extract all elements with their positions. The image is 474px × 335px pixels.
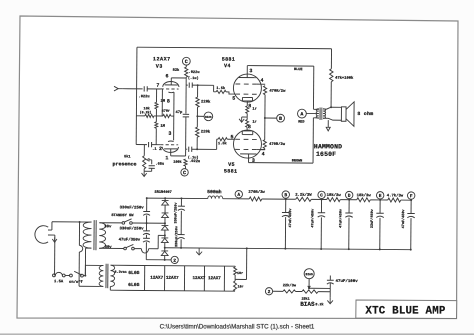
svg-text:E: E (379, 193, 382, 199)
capacitor 47uF/450v node D (348, 200, 350, 213)
resistor 22k/3w bias (283, 290, 296, 293)
wire stack1 to bias line (145, 242, 147, 259)
diode D3 (164, 218, 166, 226)
capacitor .022u (.1u) lower coupling (186, 148, 188, 150)
ground cathode junction (242, 116, 247, 118)
V5 plate lead (248, 154, 250, 163)
wire ground rail (165, 248, 411, 250)
diode D1 (164, 198, 166, 200)
wire BROWN plate V5 to OT (249, 162, 313, 165)
transformer T3 heater primary coil (99, 265, 103, 286)
title block box (356, 300, 457, 319)
V4 plate lead (246, 66, 248, 78)
wire B+ top rail (147, 197, 208, 199)
V3 bottom grid dashed (160, 144, 178, 146)
transistor V5 5881 envelope (233, 130, 261, 158)
V3 top plate bar (165, 84, 178, 86)
svg-text:47k+100k: 47k+100k (335, 76, 354, 81)
V5 screen grid dashed (235, 148, 256, 150)
svg-text:5: 5 (232, 96, 235, 102)
svg-text:3: 3 (168, 131, 171, 137)
resistor 10k (8.2k) feedback (145, 114, 154, 117)
resistor 470R/2w V5 screen (263, 140, 266, 149)
wire screen rail (264, 95, 266, 140)
svg-text:220k: 220k (201, 100, 211, 105)
wire 22k to pot (296, 290, 302, 292)
svg-text:22k/3w: 22k/3w (283, 283, 297, 288)
svg-text:8 ohm: 8 ohm (357, 111, 373, 117)
V4 plate bar (239, 77, 256, 79)
svg-text:330uF/250v: 330uF/250v (174, 225, 179, 247)
wire jog to V4 grid (213, 85, 215, 91)
resistor 2.2k/3W (296, 197, 312, 201)
node E circle rail (376, 192, 383, 199)
diode D4 (164, 230, 166, 238)
svg-text:30v: 30v (104, 225, 112, 229)
svg-text:18k/3w: 18k/3w (327, 193, 342, 198)
wire tail mid (154, 115, 163, 117)
transformer T1 HV secondary coil (99, 223, 106, 249)
svg-text:presence: presence (112, 161, 136, 167)
svg-text:8: 8 (167, 98, 170, 104)
capacitor 330uF/250v stack1 mid (145, 215, 147, 230)
resistor 470R/2w V4 screen (263, 86, 266, 95)
svg-text:330uF/250v: 330uF/250v (173, 202, 178, 224)
svg-text:.68u: .68u (155, 163, 164, 167)
wire pot to ground (318, 291, 330, 293)
capacitor .022u input coupling (143, 86, 145, 91)
capacitor 47uF/450v node B (285, 199, 287, 212)
svg-text:V5: V5 (228, 162, 235, 168)
ground OT secondary (326, 127, 330, 131)
capacitor 47uF/350v stack1 bottom (145, 235, 147, 238)
svg-text:1.5A: 1.5A (54, 280, 64, 284)
V5 cathode box (242, 131, 253, 135)
wire heater primary return tall (78, 222, 80, 245)
svg-text:STANDBY SW: STANDBY SW (111, 214, 134, 218)
svg-text:BIAS: BIAS (205, 116, 212, 119)
plug prong top (48, 229, 52, 231)
svg-text:5k1: 5k1 (124, 154, 131, 159)
capacitor .68u presence (149, 165, 155, 167)
svg-text:F: F (410, 193, 413, 199)
svg-text:BROWN: BROWN (292, 159, 303, 163)
svg-text:A: A (300, 111, 303, 117)
resistor 18k/3w first (327, 198, 341, 202)
svg-text:8.2k: 8.2k (315, 302, 323, 307)
svg-text:7: 7 (156, 83, 159, 89)
V3 top cathode arc (168, 91, 174, 94)
svg-text:1.5k: 1.5k (218, 141, 228, 146)
svg-text:(8.2k): (8.2k) (140, 110, 152, 114)
svg-text:on/off: on/off (69, 280, 83, 285)
svg-text:A: A (237, 192, 240, 198)
transformer T2 OT primary coil (316, 109, 319, 119)
svg-text:RED: RED (298, 120, 304, 124)
wire heater tie 3 (183, 266, 185, 291)
svg-text:.022u: .022u (189, 160, 200, 164)
capacitor 330uF/250v stack2 top (180, 198, 182, 206)
switch on/off (65, 274, 69, 276)
svg-text:2: 2 (268, 289, 271, 295)
transformer T3 core (105, 264, 107, 288)
svg-text:22uF/450v: 22uF/450v (370, 208, 375, 228)
node F circle rail (407, 192, 414, 199)
svg-text:(.1u): (.1u) (188, 76, 199, 81)
wire plate pin6 to 82k (170, 78, 172, 85)
svg-text:6L6G: 6L6G (128, 270, 139, 276)
wire plug top to PT primary (51, 222, 53, 230)
wire heater tie 1 (144, 265, 146, 290)
node D circle rail (345, 191, 352, 198)
fuse 1.5A (53, 274, 56, 277)
svg-text:470R/2w: 470R/2w (269, 89, 286, 94)
wire PT primary bottom (86, 247, 92, 249)
transformer T2 core (319, 107, 322, 119)
triode V3 bottom envelope (162, 147, 178, 153)
wire 47k to speaker (330, 82, 332, 107)
wire OT secondary top to speaker (323, 107, 341, 109)
svg-text:SR1N4007: SR1N4007 (155, 191, 172, 195)
svg-text:30v: 30v (105, 246, 113, 250)
wire 1.5k to pin5 V5 (227, 138, 235, 140)
wire grid2 from presence cap (136, 144, 147, 146)
wire heater rail top (111, 264, 236, 267)
svg-text:8: 8 (248, 124, 251, 130)
inductor 500mh choke (208, 196, 223, 199)
svg-text:1r: 1r (252, 108, 256, 112)
node A circle rail (235, 190, 242, 197)
wire standby2 hop and to diodes (134, 248, 141, 250)
svg-text:12AX7: 12AX7 (150, 276, 163, 281)
wire rail C-D (340, 199, 356, 201)
ground bias (327, 300, 333, 303)
transistor V4 5881 envelope (233, 74, 261, 102)
svg-text:4: 4 (262, 151, 265, 157)
resistor 1M lower grid-tail (155, 116, 157, 122)
wire screen pin4 V5 (257, 149, 265, 151)
wire OT secondary bottom return (323, 118, 341, 120)
wire cathode pin3 rise (173, 92, 175, 140)
capacitor .1 lower grid (148, 142, 150, 147)
resistor 100k lower plate (184, 159, 187, 166)
svg-text:B: B (279, 116, 282, 122)
svg-text:47uF/450v: 47uF/450v (288, 208, 293, 228)
node BIAS circle (196, 115, 198, 117)
potentiometer 5k1 presence (143, 145, 145, 156)
svg-text:2: 2 (173, 258, 176, 264)
svg-text:330uF/250v: 330uF/250v (119, 226, 144, 231)
svg-text:10r: 10r (237, 271, 243, 276)
wire tail left segment (136, 115, 144, 117)
wire rail E-F (401, 199, 411, 201)
svg-text:5881: 5881 (222, 57, 235, 63)
resistor 82k plate V3a (185, 67, 188, 77)
svg-text:1M: 1M (161, 100, 166, 104)
wire jog to V5 grid (216, 139, 218, 149)
svg-text:BLUE: BLUE (294, 68, 302, 72)
triode V3 top envelope (163, 81, 179, 87)
svg-text:BIAS: BIAS (306, 273, 313, 276)
diode D2 (164, 205, 166, 213)
wire standby1 to diodes (132, 222, 165, 224)
svg-text:V3: V3 (156, 64, 163, 70)
speaker 8 ohm (341, 107, 346, 121)
svg-text:B: B (284, 192, 287, 198)
capacitor 47p between plates (185, 85, 187, 113)
ground presence (142, 173, 147, 176)
V3 bottom plate bar (164, 148, 177, 150)
svg-text:4.7k/3w: 4.7k/3w (387, 193, 404, 198)
svg-text:6: 6 (165, 73, 168, 79)
svg-text:100k: 100k (173, 160, 181, 165)
resistor 10r humdinger bottom (234, 281, 237, 291)
svg-text:XTC BLUE AMP: XTC BLUE AMP (365, 305, 445, 317)
V4 screen grid dashed (235, 83, 256, 85)
wire main rail A-F (223, 198, 249, 200)
resistor 1M upper grid-tail (156, 89, 158, 102)
svg-text:5: 5 (231, 134, 234, 140)
svg-text:220k: 220k (201, 130, 211, 135)
node 2 circle bias input (265, 288, 272, 295)
wire BLUE plate V4 to OT (247, 65, 313, 68)
transformer T3 heater secondary coil (110, 265, 114, 286)
svg-text:C: C (320, 193, 323, 199)
AC plug (35, 226, 48, 244)
resistor 18k/3w second (357, 198, 371, 202)
scan edge artifact bottom (0, 333, 474, 335)
svg-text:2: 2 (159, 146, 162, 152)
svg-text:10r: 10r (237, 285, 243, 290)
resistor 1.5k V5 grid (218, 138, 227, 141)
svg-text:3: 3 (249, 68, 252, 74)
capacitor .022u (.1u) upper coupling (186, 84, 188, 86)
svg-text:V4: V4 (224, 63, 231, 69)
svg-text:82k: 82k (173, 68, 180, 73)
presence wiper arrow (149, 159, 152, 161)
wire heater tie 2 (164, 266, 166, 291)
svg-text:47uF/350v: 47uF/350v (119, 237, 141, 242)
svg-text:470R/2w: 470R/2w (269, 142, 286, 147)
V3 bottom cathode arc (168, 140, 174, 143)
resistor 4.7k/3w (388, 198, 401, 202)
svg-text:500mh: 500mh (207, 189, 222, 195)
svg-text:270R/3w: 270R/3w (248, 190, 265, 195)
svg-text:47uF/450v: 47uF/450v (310, 208, 315, 228)
node B circle tubes (265, 117, 277, 119)
node C circle bottom (181, 169, 188, 176)
svg-text:.022u: .022u (138, 95, 149, 99)
svg-text:D: D (348, 193, 351, 199)
transformer T2 OT secondary coil (323, 109, 326, 119)
wire rail D-E (370, 199, 387, 201)
resistor 47k+100k feedback (330, 69, 334, 82)
switch standby pole 1 (99, 222, 122, 224)
svg-text:BIAS: BIAS (300, 301, 315, 308)
transformer T1 core (93, 220, 95, 250)
resistor 1r V5 cathode (246, 117, 248, 119)
svg-text:470r: 470r (162, 109, 170, 114)
capacitor 47uF/100v bias (327, 279, 334, 281)
input terminal arrow (114, 86, 118, 91)
svg-text:1.5k: 1.5k (216, 86, 226, 91)
resistor 1r V4 cathode (246, 106, 249, 114)
svg-text:2.2k/3W: 2.2k/3W (295, 193, 312, 198)
wire cathode pin8 drop (161, 89, 163, 116)
wire heater rail bottom (110, 289, 235, 292)
V4 cathode lead (246, 101, 248, 106)
switch standby pole 2 (99, 247, 123, 249)
svg-text:12AX7: 12AX7 (192, 276, 205, 281)
resistor 470r tail (163, 114, 171, 117)
plug prong bottom (48, 234, 55, 236)
resistor 220k lower grid leak (196, 116, 198, 127)
node C circle top (182, 57, 190, 65)
svg-text:C:\Users\timn\Downloads\Marsha: C:\Users\timn\Downloads\Marshall STC (1)… (160, 324, 315, 331)
wire heater tie 5 (223, 266, 225, 291)
V3 top grid dashed (161, 88, 179, 90)
wire 1.5k to pin5 V4 (226, 92, 235, 94)
wire plate pin1 out (170, 149, 172, 156)
svg-text:C: C (185, 59, 188, 65)
V4 cathode box (242, 97, 252, 100)
svg-text:330uF/250v: 330uF/250v (120, 205, 145, 210)
resistor 220k upper grid leak (197, 84, 199, 86)
svg-text:6L6G: 6L6G (128, 282, 139, 288)
wire rail B-C (311, 198, 326, 200)
node BIAS circle bottom (304, 269, 314, 279)
ground mains earth arrow (52, 239, 57, 242)
wire NFB drop right (330, 49, 332, 69)
wire bias to cap (308, 287, 310, 289)
svg-text:HAMMOND: HAMMOND (314, 143, 342, 150)
wire humdinger junction to ground rail (235, 278, 246, 280)
capacitor 330uF/250v stack1 top (146, 198, 148, 211)
svg-text:12AX7: 12AX7 (153, 56, 171, 62)
svg-text:47p: 47p (175, 111, 183, 115)
wire switch to junction (83, 275, 85, 277)
node C circle rail (318, 191, 325, 198)
wire screen pin4 V4 (257, 83, 262, 85)
svg-text:18k/3w: 18k/3w (357, 193, 372, 198)
svg-text:1r: 1r (252, 121, 256, 125)
capacitor 22uF/450v node E (379, 200, 381, 213)
V4 control grid dashed (235, 93, 256, 95)
wire heater tie 4 (203, 266, 205, 291)
wire A to OT center tap (306, 112, 318, 114)
transformer T1 PT primary coil (83, 222, 92, 248)
capacitor 47uF/450v node C (320, 199, 322, 212)
wire NFB vertical line (135, 47, 138, 144)
ground rail arrow (196, 252, 202, 255)
capacitor 47uF/450v node F (410, 200, 412, 213)
svg-text:4: 4 (260, 78, 263, 84)
resistor 10r humdinger top (234, 267, 237, 275)
svg-text:.022u: .022u (188, 71, 199, 75)
wire 2 to 22k (273, 290, 283, 292)
svg-text:5881: 5881 (224, 168, 237, 174)
svg-text:12AX7: 12AX7 (166, 276, 179, 281)
svg-text:47uF/450v: 47uF/450v (401, 209, 406, 229)
wire plug bottom to fuse (54, 235, 56, 275)
node 2 circle bias tap (165, 259, 171, 261)
V5 plate bar (240, 153, 256, 155)
svg-text:12AX7: 12AX7 (208, 276, 221, 281)
resistor 270R/3w (249, 197, 262, 201)
svg-text:1M: 1M (160, 125, 165, 129)
capacitor 330uF/250v stack2 bottom (180, 211, 182, 235)
wire rail A-B (262, 198, 296, 200)
diode D5 bias (164, 243, 166, 251)
svg-text:47uF/450v: 47uF/450v (338, 208, 343, 228)
bias pot wiper arrow (308, 279, 310, 289)
svg-text:6.3vac: 6.3vac (115, 271, 127, 275)
resistor 1.5k V4 grid (216, 90, 226, 93)
svg-text:1: 1 (165, 155, 168, 161)
node B circle rail (282, 191, 289, 198)
wire heater primary top feed (85, 264, 99, 266)
V5 control grid dashed (235, 138, 256, 140)
svg-text:1650F: 1650F (316, 151, 336, 158)
node A circle OT (297, 109, 306, 118)
svg-text:47uF/100v: 47uF/100v (336, 279, 359, 284)
potentiometer 25k1 BIAS (302, 290, 318, 294)
wire input to coupling cap (123, 88, 143, 90)
svg-text:C: C (183, 170, 186, 176)
wire NFB top rail (137, 47, 332, 49)
